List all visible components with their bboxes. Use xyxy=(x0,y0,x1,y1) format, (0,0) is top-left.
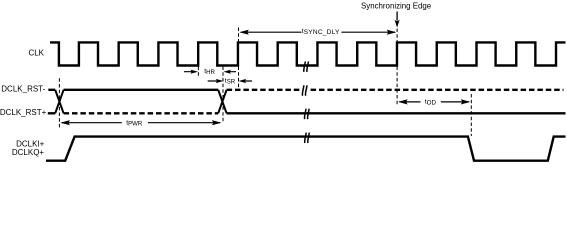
dashed vertical at tHR left x=198.4 xyxy=(197,67,199,78)
tSR arrows (outside pointing) xyxy=(208,79,252,83)
svg-text:tHR: tHR xyxy=(204,68,215,76)
dashed vertical at tSR right / tSYNC_DLY left x=238.5 xyxy=(238,28,240,90)
DCLK_RST+ dashed low segment xyxy=(64,112,219,114)
svg-text:DCLK_RST-: DCLK_RST- xyxy=(1,84,45,93)
svg-text:tSYNC_DLY: tSYNC_DLY xyxy=(302,28,340,36)
DCLK_RST- solid high segment xyxy=(64,89,219,91)
crossover X2 xyxy=(218,90,226,114)
svg-text:tSR: tSR xyxy=(225,78,236,86)
break marks on CLK low segment xyxy=(304,62,309,72)
svg-text:tOD: tOD xyxy=(425,98,437,106)
dashed vertical at tOD right x=471.3 xyxy=(470,94,472,136)
break marks on DCLKI/DCLKQ high rail xyxy=(305,133,310,143)
svg-text:DCLKI+: DCLKI+ xyxy=(16,139,45,148)
svg-text:CLK: CLK xyxy=(28,49,44,58)
svg-text:DCLK_RST+: DCLK_RST+ xyxy=(0,108,47,117)
DCLK_RST+ solid low segment xyxy=(227,112,566,114)
dashed vertical at synchronizing edge x=397.1 xyxy=(396,29,398,105)
DCLK_RST- top rail stub left xyxy=(48,89,55,91)
dashed vertical at second crossover x=222.4 xyxy=(222,67,224,122)
DCLKI/DCLKQ output waveform xyxy=(46,137,566,161)
tPWR dimension arrow xyxy=(60,120,221,125)
svg-text:Synchronizing Edge: Synchronizing Edge xyxy=(361,1,432,10)
svg-text:tPWR: tPWR xyxy=(126,119,143,127)
Synchronizing Edge down arrow xyxy=(395,12,400,28)
crossover X1 xyxy=(55,90,63,114)
break marks on DCLK_RST+ solid rail xyxy=(304,109,309,119)
CLK waveform xyxy=(50,42,566,65)
DCLK_RST+ bottom rail stub left xyxy=(48,112,55,114)
tHR arrows (outside pointing) xyxy=(184,70,236,74)
break marks on DCLK_RST- dashed rail xyxy=(300,85,310,95)
svg-text:DCLKQ+: DCLKQ+ xyxy=(12,148,45,157)
tSYNC_DLY dimension arrow xyxy=(239,30,396,35)
DCLK_RST- dashed high segment xyxy=(227,89,564,91)
dashed vertical at first crossover x=59.4 xyxy=(58,78,60,129)
tOD dimension arrow xyxy=(398,99,470,104)
